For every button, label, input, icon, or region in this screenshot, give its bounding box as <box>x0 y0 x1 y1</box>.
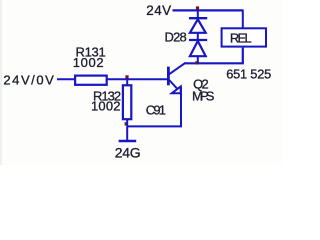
ground bar 24G <box>119 140 137 143</box>
wire diode bottom stub <box>197 56 199 63</box>
diode D28 upper cathode bar <box>189 17 207 19</box>
wire diode top stub <box>197 10 199 18</box>
wire R132 bottom stub <box>126 120 128 127</box>
wire bottom rail and emitter vertical <box>127 87 181 127</box>
svg-text:D28: D28 <box>165 29 187 44</box>
wire R132 top stub <box>126 80 128 85</box>
svg-text:651 525: 651 525 <box>226 66 271 81</box>
diode D28 upper <box>190 19 206 33</box>
resistor R131 <box>75 76 107 85</box>
svg-text:24V/0V: 24V/0V <box>3 73 55 88</box>
wire base horizontal <box>57 78 169 80</box>
ground stub <box>126 126 128 140</box>
wire top rail <box>173 9 244 11</box>
transistor Q2 emitter arrow <box>172 86 181 93</box>
diode D28 lower cathode bar <box>189 39 207 41</box>
wire between diodes <box>197 33 199 40</box>
svg-text:1002: 1002 <box>91 98 121 113</box>
svg-text:24V: 24V <box>146 3 171 18</box>
svg-text:1002: 1002 <box>73 55 105 70</box>
junction dot C diode bottom <box>195 61 198 64</box>
diode D28 lower <box>190 41 206 56</box>
transistor Q2 collector diagonal <box>169 63 185 74</box>
relay REL box <box>222 28 266 46</box>
svg-text:24G: 24G <box>115 144 141 160</box>
svg-text:C91: C91 <box>146 102 166 117</box>
svg-text:REL: REL <box>230 31 252 46</box>
transistor Q2 emitter diagonal <box>169 80 180 92</box>
junction dot A <box>125 75 128 78</box>
junction dot B <box>125 122 128 125</box>
wire REL top stub <box>242 10 244 28</box>
wire collector rail <box>184 48 243 64</box>
resistor R132 <box>123 85 131 119</box>
junction dot D diode top <box>196 6 199 9</box>
svg-text:MPS: MPS <box>192 89 215 104</box>
transistor Q2 base bar <box>167 67 170 86</box>
